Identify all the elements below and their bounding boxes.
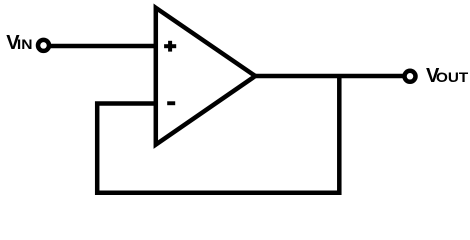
op-amp + input marker (164, 41, 176, 52)
label VIN (6, 32, 32, 54)
wire from op-amp output to VOUT terminal (256, 74, 410, 79)
wire from VIN terminal to non-inverting input (44, 44, 158, 49)
op-amp - input marker (167, 101, 175, 105)
wire feedback loop from inverting input to output node (97, 76, 339, 193)
node VIN terminal (38, 40, 49, 51)
svg-text:OUT: OUT (436, 70, 469, 85)
node VOUT terminal (405, 71, 416, 82)
label VOUT (426, 65, 469, 87)
op-amp U1 (156, 8, 256, 145)
svg-text:IN: IN (17, 37, 33, 52)
